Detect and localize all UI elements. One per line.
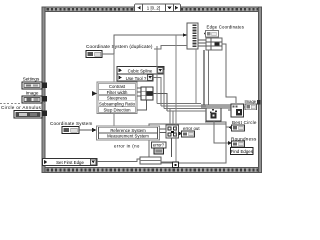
svg-text:error in (no: error in (no <box>114 143 140 148</box>
indicator Roundness <box>232 141 245 147</box>
unbundle-by-name Reference/Measurement System <box>97 126 160 140</box>
local variable Coordinate System <box>62 127 79 134</box>
wire from local variable up and right to unbundle node <box>102 33 187 54</box>
IMAQ Draw / overlay VI icon <box>231 104 244 117</box>
wire x114 down to Reference System unbundle <box>113 54 115 127</box>
wire from Use Tool ring down to IMAQ node <box>153 78 161 107</box>
label error? <box>152 142 167 148</box>
wire into Reference System unbundle <box>79 129 92 131</box>
outer stacked sequence frame: left border <box>42 7 45 173</box>
svg-text:Best Circle: Best Circle <box>232 120 257 125</box>
wire from Set First Edge to constant box <box>97 159 140 162</box>
ring constant Set First Edge <box>43 159 98 166</box>
svg-text:Image: Image <box>26 91 39 96</box>
wires into merge node from top <box>169 109 171 126</box>
wire from bundle grid node bottom down to image bar <box>208 50 210 105</box>
wires into draw VI icon from bar <box>228 109 231 111</box>
tunnel for Circle or Annulus on left border <box>42 111 47 117</box>
indicator Best Circle <box>229 125 245 131</box>
IMAQ Find Circular Edge VI icon <box>206 106 221 121</box>
svg-text:Set First Edge: Set First Edge <box>56 160 84 165</box>
control terminal Image <box>22 96 42 103</box>
tunnel for Settings on left border <box>42 83 47 89</box>
wires from unbundle rows into merge node <box>160 128 167 130</box>
indicator Edge Coordinates <box>204 31 219 38</box>
unbundle-by-name stack (Settings fields) <box>97 82 137 114</box>
image wire pair from unbundle area down <box>195 49 197 104</box>
bundle grid node (points to array) <box>206 38 222 50</box>
svg-text:Steepness: Steepness <box>107 96 127 101</box>
constant box near bottom <box>140 157 161 164</box>
outer stacked sequence frame: bottom border <box>42 168 262 173</box>
svg-text:Use Tool ?: Use Tool ? <box>126 76 147 81</box>
svg-text:error?: error? <box>153 143 165 148</box>
ring constant Use Tool ? <box>117 74 153 81</box>
arrow into unbundle-by-name stack <box>92 91 97 96</box>
wire from merge node down <box>171 138 173 157</box>
thick image wire down <box>203 50 205 105</box>
merge/bundle 2x2 node <box>166 125 179 138</box>
svg-text:Circle or Annulus: Circle or Annulus <box>1 105 42 110</box>
svg-text:Coordinate System: Coordinate System <box>50 121 92 126</box>
dotted separator above Circle or Annulus label <box>0 103 46 105</box>
wire from grid node right, down to IMAQ draw node <box>222 44 236 103</box>
stepped wire below unbundle node <box>154 46 187 50</box>
control terminal Settings <box>22 82 42 89</box>
svg-text:Step Direction: Step Direction <box>104 108 132 113</box>
wire from Step Direction row to bundle node bottom <box>137 100 147 110</box>
long wire x176 from top junction down to bottom tunnel <box>175 35 177 162</box>
svg-text:Settings: Settings <box>23 77 40 82</box>
local variable Coordinate System (duplicate) <box>86 51 102 58</box>
thick image wire bar <box>201 105 231 108</box>
svg-text:error out: error out <box>183 126 200 131</box>
control terminal Circle or Annulus <box>14 111 42 119</box>
indicator error out <box>182 131 195 137</box>
boolean terminal error? <box>154 148 164 154</box>
wire from merge node to error out <box>179 133 182 135</box>
wire from bundle node to IMAQ node <box>153 94 167 112</box>
wire VI icon to Image Out indicator <box>244 106 246 108</box>
sequence selector label "1 [0..2]" <box>135 4 181 12</box>
wire from constant box to bottom tunnel <box>161 162 173 164</box>
outer stacked sequence frame: top border <box>42 7 262 12</box>
svg-text:Reference System: Reference System <box>110 128 146 133</box>
ring constant Cubic Spline <box>117 67 164 75</box>
outer stacked sequence frame: right border <box>259 7 262 173</box>
svg-text:1 [0..2]: 1 [0..2] <box>147 5 160 10</box>
wire x157 from step down to IMAQ node <box>156 46 158 104</box>
bundle node (edge options cluster) <box>141 87 153 100</box>
wire from IMAQ VI bottom to Best Circle / Roundness <box>205 122 231 127</box>
short wires from stack rows to bundle node <box>137 87 141 89</box>
svg-text:Cubic Spline: Cubic Spline <box>128 69 153 74</box>
tunnel for Image on left border <box>42 96 47 102</box>
svg-text:Edge Coordinates: Edge Coordinates <box>207 25 245 30</box>
svg-text:Coordinate System (duplicate): Coordinate System (duplicate) <box>86 44 153 49</box>
svg-text:Filter width: Filter width <box>107 90 128 95</box>
indicator Image Out <box>245 104 257 110</box>
wires from left into IMAQ VI icon <box>157 103 201 105</box>
svg-text:Contrast: Contrast <box>109 84 126 89</box>
svg-text:Find Edges: Find Edges <box>231 149 254 154</box>
svg-text:Measurement System: Measurement System <box>107 134 149 139</box>
wire from Cubic Spline ring down to IMAQ node <box>163 70 165 109</box>
unbundle node (Edge Coordinates source) <box>187 23 198 49</box>
svg-text:Subsampling Ratio: Subsampling Ratio <box>99 102 136 107</box>
tunnel on bottom border <box>173 162 179 168</box>
tunnel on right border for Image Out <box>257 100 261 105</box>
constant Find Edges <box>231 148 254 155</box>
error case structure <box>149 124 226 163</box>
short wires from unbundle node to bundle grid node <box>198 39 206 41</box>
